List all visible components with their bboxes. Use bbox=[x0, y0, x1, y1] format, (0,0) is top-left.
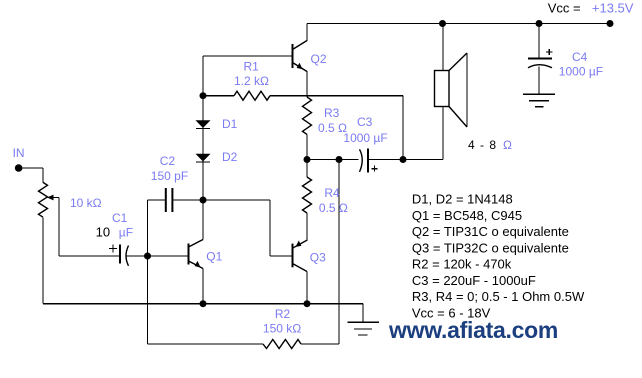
svg-text:Q3: Q3 bbox=[310, 251, 326, 265]
svg-text:Q3 = TIP32C o equivalente: Q3 = TIP32C o equivalente bbox=[412, 240, 569, 255]
svg-text:R2 = 120k - 470k: R2 = 120k - 470k bbox=[412, 257, 512, 272]
svg-text:Q1: Q1 bbox=[206, 250, 222, 264]
svg-text:Q1 = BC548, C945: Q1 = BC548, C945 bbox=[412, 208, 522, 223]
svg-text:10 kΩ: 10 kΩ bbox=[70, 196, 102, 210]
svg-text:C3 = 220uF - 1000uF: C3 = 220uF - 1000uF bbox=[412, 273, 536, 288]
svg-text:R2: R2 bbox=[275, 307, 291, 321]
svg-text:C3: C3 bbox=[357, 115, 373, 129]
svg-text:10: 10 bbox=[96, 225, 110, 240]
svg-text:+13.5V: +13.5V bbox=[592, 0, 634, 15]
svg-text:Q2: Q2 bbox=[311, 52, 327, 66]
svg-text:4 - 8: 4 - 8 bbox=[468, 138, 497, 152]
svg-text:D1: D1 bbox=[222, 117, 238, 131]
svg-text:C2: C2 bbox=[160, 154, 176, 168]
svg-text:µF: µF bbox=[119, 226, 133, 240]
svg-text:1000 µF: 1000 µF bbox=[559, 65, 603, 79]
svg-text:R3, R4 = 0; 0.5 - 1 Ohm 0.5W: R3, R4 = 0; 0.5 - 1 Ohm 0.5W bbox=[412, 289, 585, 304]
svg-text:D1, D2 = 1N4148: D1, D2 = 1N4148 bbox=[412, 192, 513, 207]
svg-text:150 pF: 150 pF bbox=[151, 169, 188, 183]
svg-text:R4: R4 bbox=[324, 186, 340, 200]
svg-text:R1: R1 bbox=[244, 60, 260, 74]
svg-text:1.2 kΩ: 1.2 kΩ bbox=[234, 74, 269, 88]
svg-text:Q2 = TIP31C o equivalente: Q2 = TIP31C o equivalente bbox=[412, 224, 569, 239]
svg-text:www.afiata.com: www.afiata.com bbox=[388, 317, 558, 343]
svg-text:R3: R3 bbox=[324, 106, 340, 120]
svg-text:150 kΩ: 150 kΩ bbox=[263, 322, 301, 336]
svg-text:C1: C1 bbox=[112, 211, 128, 225]
svg-text:0.5 Ω: 0.5 Ω bbox=[319, 201, 348, 215]
svg-text:1000 µF: 1000 µF bbox=[343, 131, 387, 145]
svg-text:Ω: Ω bbox=[503, 138, 512, 152]
svg-text:D2: D2 bbox=[222, 150, 238, 164]
svg-text:C4: C4 bbox=[572, 50, 588, 64]
svg-text:Vcc =: Vcc = bbox=[548, 0, 581, 15]
svg-text:IN: IN bbox=[13, 146, 25, 160]
